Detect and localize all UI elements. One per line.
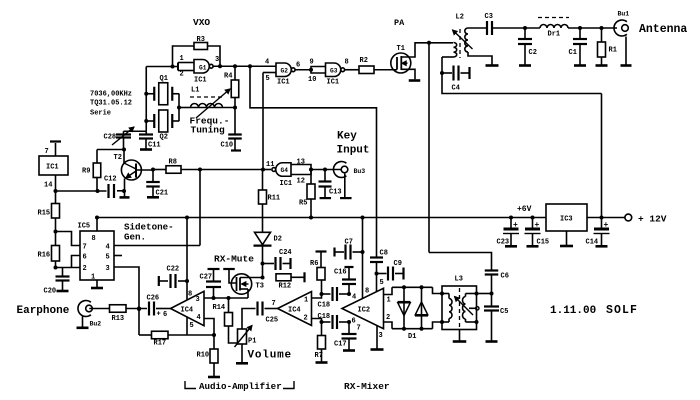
svg-text:1: 1 <box>387 297 391 305</box>
svg-text:Q2: Q2 <box>160 134 168 142</box>
svg-text:14: 14 <box>44 182 52 190</box>
svg-text:8: 8 <box>92 235 96 243</box>
svg-text:R1: R1 <box>609 47 617 55</box>
svg-text:C13: C13 <box>329 189 342 197</box>
svg-text:+ 12V: + 12V <box>638 214 667 225</box>
svg-text:IC1: IC1 <box>327 79 340 87</box>
svg-text:2: 2 <box>386 314 390 322</box>
svg-text:4: 4 <box>197 314 201 322</box>
svg-text:P1: P1 <box>248 338 256 346</box>
svg-text:R12: R12 <box>279 283 292 291</box>
svg-text:5: 5 <box>266 75 270 83</box>
svg-text:2: 2 <box>304 315 308 323</box>
svg-text:D2: D2 <box>274 236 282 244</box>
svg-text:2: 2 <box>180 71 184 79</box>
svg-text:4: 4 <box>106 244 110 252</box>
svg-text:R6: R6 <box>310 260 318 268</box>
svg-text:5: 5 <box>190 322 194 330</box>
svg-text:G1: G1 <box>199 65 207 72</box>
svg-text:Gen.: Gen. <box>124 232 146 243</box>
svg-text:3: 3 <box>196 296 200 304</box>
svg-text:R16: R16 <box>38 252 51 260</box>
svg-text:R10: R10 <box>197 352 210 360</box>
svg-text:C26: C26 <box>147 295 160 303</box>
svg-text:6: 6 <box>83 254 87 262</box>
svg-text:R4: R4 <box>224 73 232 81</box>
svg-text:C11: C11 <box>148 142 161 150</box>
svg-text:L3: L3 <box>455 276 463 284</box>
svg-text:C18: C18 <box>318 313 331 321</box>
svg-text:1: 1 <box>304 297 308 305</box>
svg-text:C2: C2 <box>529 49 537 57</box>
svg-text:IC1: IC1 <box>280 180 293 188</box>
svg-text:L2: L2 <box>456 14 464 22</box>
svg-text:1: 1 <box>180 55 184 63</box>
svg-text:13: 13 <box>297 159 305 167</box>
svg-text:IC5: IC5 <box>78 223 91 231</box>
svg-text:VXO: VXO <box>193 17 210 28</box>
svg-text:C20: C20 <box>44 288 57 296</box>
svg-text:Serie: Serie <box>90 110 111 118</box>
svg-text:6: 6 <box>163 311 167 319</box>
svg-text:SOLF: SOLF <box>606 304 638 317</box>
svg-text:4: 4 <box>352 294 356 302</box>
svg-text:IC2: IC2 <box>358 307 371 315</box>
svg-text:R2: R2 <box>360 57 368 65</box>
svg-text:C8: C8 <box>380 250 388 258</box>
svg-text:Antenna: Antenna <box>639 23 687 36</box>
svg-text:C18: C18 <box>318 302 331 310</box>
svg-text:Input: Input <box>337 145 370 157</box>
svg-text:5: 5 <box>106 254 110 262</box>
svg-text:+: + <box>157 311 161 319</box>
svg-text:T3: T3 <box>256 283 264 291</box>
svg-text:IC4: IC4 <box>288 307 301 315</box>
svg-text:L1: L1 <box>191 87 199 95</box>
svg-text:R3: R3 <box>197 36 205 44</box>
svg-text:7036,00KHz: 7036,00KHz <box>90 91 132 99</box>
svg-text:C17: C17 <box>334 341 347 349</box>
svg-text:TQ31.05.12: TQ31.05.12 <box>90 100 132 108</box>
svg-text:C4: C4 <box>452 85 460 93</box>
svg-text:R17: R17 <box>154 340 167 348</box>
svg-text:G3: G3 <box>330 68 338 75</box>
svg-text:Key: Key <box>337 131 357 143</box>
svg-text:C5: C5 <box>500 308 508 316</box>
svg-text:7: 7 <box>357 325 361 333</box>
svg-text:C27: C27 <box>200 274 213 282</box>
svg-text:5: 5 <box>380 279 384 287</box>
svg-text:Tuning: Tuning <box>191 125 226 136</box>
svg-text:Audio-Amplifier: Audio-Amplifier <box>199 381 282 392</box>
svg-text:RX-Mixer: RX-Mixer <box>344 381 390 392</box>
svg-text:IC3: IC3 <box>560 216 573 224</box>
svg-text:G2: G2 <box>281 68 289 75</box>
svg-text:Bu2: Bu2 <box>90 321 102 328</box>
svg-text:1: 1 <box>91 274 95 282</box>
svg-text:Q1: Q1 <box>160 75 168 83</box>
svg-text:3: 3 <box>379 332 383 340</box>
svg-text:R8: R8 <box>169 159 177 167</box>
svg-text:C25: C25 <box>266 317 279 325</box>
svg-text:G4: G4 <box>281 167 289 174</box>
svg-text:D1: D1 <box>408 333 416 341</box>
svg-text:IC1: IC1 <box>194 77 207 85</box>
svg-text:PA: PA <box>394 18 405 28</box>
svg-text:C10: C10 <box>221 142 234 150</box>
svg-text:+: + <box>513 221 518 230</box>
svg-text:C7: C7 <box>345 239 353 247</box>
svg-text:R9: R9 <box>82 168 90 176</box>
svg-text:2: 2 <box>83 265 87 273</box>
svg-text:Dr1: Dr1 <box>548 31 561 39</box>
svg-text:7: 7 <box>272 300 276 308</box>
svg-text:12: 12 <box>297 178 305 186</box>
svg-text:C23: C23 <box>497 239 510 247</box>
svg-text:9: 9 <box>310 59 314 67</box>
svg-text:IC1: IC1 <box>277 79 290 87</box>
svg-text:Bu1: Bu1 <box>618 11 630 18</box>
svg-text:T1: T1 <box>397 45 405 53</box>
svg-text:6: 6 <box>296 62 300 70</box>
svg-text:C16: C16 <box>334 269 347 277</box>
svg-text:T2: T2 <box>114 154 122 162</box>
svg-text:R13: R13 <box>112 315 125 323</box>
svg-text:C12: C12 <box>104 176 117 184</box>
svg-text:C14: C14 <box>586 239 599 247</box>
svg-text:IC1: IC1 <box>46 164 59 172</box>
svg-text:7: 7 <box>83 244 87 252</box>
svg-text:+: + <box>535 221 540 230</box>
svg-text:8: 8 <box>188 291 192 299</box>
svg-text:3: 3 <box>215 56 219 64</box>
svg-text:+6V: +6V <box>517 205 532 214</box>
svg-text:Earphone: Earphone <box>17 305 70 317</box>
svg-text:11: 11 <box>266 161 274 169</box>
svg-text:R11: R11 <box>268 195 281 203</box>
svg-text:8: 8 <box>345 59 349 67</box>
svg-text:C6: C6 <box>501 273 509 281</box>
svg-text:Volume: Volume <box>248 350 292 362</box>
svg-text:10: 10 <box>308 76 316 84</box>
svg-text:R15: R15 <box>38 210 51 218</box>
svg-text:C15: C15 <box>537 239 550 247</box>
svg-text:7: 7 <box>45 148 49 156</box>
svg-text:Bu3: Bu3 <box>354 168 366 175</box>
svg-text:R5: R5 <box>299 200 307 208</box>
svg-text:C9: C9 <box>394 260 402 268</box>
svg-text:C21: C21 <box>156 190 169 198</box>
svg-text:IC4: IC4 <box>181 307 194 315</box>
svg-text:R14: R14 <box>213 304 226 312</box>
svg-text:4: 4 <box>265 59 269 67</box>
svg-text:6: 6 <box>352 318 356 326</box>
svg-text:R7: R7 <box>315 352 323 360</box>
svg-text:C3: C3 <box>485 13 493 21</box>
svg-text:C28: C28 <box>104 134 117 142</box>
svg-text:+: + <box>604 221 609 230</box>
svg-text:C22: C22 <box>167 266 180 274</box>
svg-text:8: 8 <box>365 288 369 296</box>
svg-text:3: 3 <box>106 265 110 273</box>
svg-text:C1: C1 <box>569 49 577 57</box>
svg-text:RX-Mute: RX-Mute <box>214 254 254 265</box>
svg-text:C24: C24 <box>279 249 292 257</box>
svg-text:1.11.00: 1.11.00 <box>550 305 596 317</box>
